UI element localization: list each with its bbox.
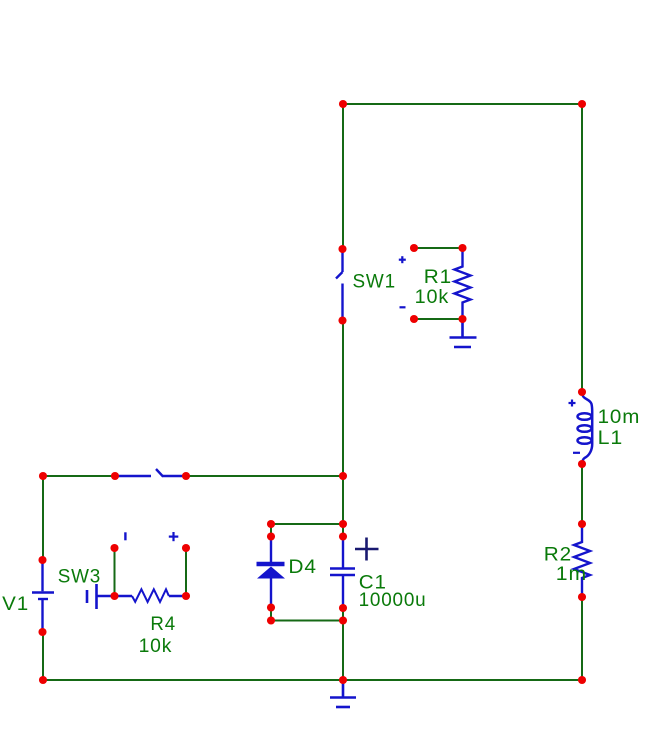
switch SW1 — [336, 251, 343, 318]
node D4 pin bottom — [267, 603, 275, 611]
svg-text:10k: 10k — [415, 287, 449, 308]
label R1 — [424, 267, 452, 288]
svg-text:1m: 1m — [556, 564, 587, 585]
node mid left corner — [39, 472, 47, 480]
svg-text:V1: V1 — [2, 594, 29, 615]
node R1 top — [458, 244, 466, 252]
svg-text:R2: R2 — [544, 545, 572, 566]
svg-text:10m: 10m — [598, 407, 641, 428]
wire right lower vertical — [581, 597, 583, 680]
wire mid junction down to C1 — [342, 476, 344, 538]
node R1 sense bottom — [410, 315, 418, 323]
switch SW2 horizontal — [115, 469, 186, 477]
wire right middle vertical — [581, 464, 583, 524]
wire left vertical above V1 — [42, 476, 44, 560]
wire right upper vertical — [581, 104, 583, 392]
svg-text:R4: R4 — [150, 614, 176, 635]
node SW1 bottom — [338, 316, 346, 324]
resistor R2 — [574, 524, 590, 597]
node C1 pin top — [339, 532, 347, 540]
node L1 bottom — [578, 460, 586, 468]
wire middle horizontal left — [43, 475, 115, 477]
label R2 value 1m — [556, 564, 587, 585]
label SW3 — [58, 567, 101, 588]
node R4 right — [182, 592, 190, 600]
wire top horizontal — [343, 103, 582, 105]
node D4 corner top — [267, 520, 275, 528]
wire D4 bottom horizontal — [271, 620, 343, 622]
node R1 bottom — [458, 315, 466, 323]
node ground junction — [339, 676, 347, 684]
label SW1 — [353, 272, 396, 293]
switch SW3 — [87, 584, 115, 609]
label R4 — [150, 614, 176, 635]
svg-text:SW3: SW3 — [58, 567, 101, 588]
label C1 — [359, 573, 387, 594]
node R2 bottom — [578, 593, 586, 601]
wire R1 top horizontal — [414, 247, 463, 249]
label R1 value 10k — [415, 287, 449, 308]
polarity + SW3 — [169, 532, 179, 541]
node top right — [578, 100, 586, 108]
node C1 corner top — [339, 520, 347, 528]
polarity + R1 — [399, 256, 406, 263]
inductor L1 — [578, 392, 593, 464]
polarity + C1 — [355, 538, 379, 561]
node SW3 sense right top — [182, 544, 190, 552]
svg-text:L1: L1 — [598, 428, 624, 449]
battery V1 — [32, 560, 54, 632]
wire SW1 top feed — [342, 104, 344, 249]
wire middle horizontal right — [186, 475, 343, 477]
svg-text:10000u: 10000u — [359, 590, 427, 611]
resistor R4 — [115, 589, 187, 602]
polarity - R1 — [400, 306, 406, 308]
label R2 — [544, 545, 572, 566]
label D4 — [288, 557, 317, 578]
wire SW1 bottom to mid junction — [342, 321, 344, 476]
node bottom right corner — [578, 676, 586, 684]
svg-text:10k: 10k — [139, 636, 173, 657]
node SW3 sense left top — [110, 544, 118, 552]
svg-text:SW1: SW1 — [353, 272, 396, 293]
polarity - L1 — [573, 452, 580, 454]
node R2 top — [578, 520, 586, 528]
node bottom left corner — [39, 676, 47, 684]
label C1 value 10000u — [359, 590, 427, 611]
capacitor C1 — [330, 538, 355, 607]
node top left — [339, 100, 347, 108]
node C1 corner bottom — [339, 616, 347, 624]
node SW2 left — [111, 472, 119, 480]
node V1 top — [38, 556, 46, 564]
node D4 pin top — [267, 532, 275, 540]
label L1 value 10m — [598, 407, 641, 428]
label V1 — [2, 594, 29, 615]
node D4 corner bottom — [267, 616, 275, 624]
node mid junction — [339, 472, 347, 480]
ground under R1 — [450, 319, 477, 347]
wire D4 top stub — [270, 524, 272, 538]
node R4 left — [110, 592, 118, 600]
label L1 — [598, 428, 624, 449]
polarity + L1 — [569, 400, 576, 407]
node C1 pin bottom — [339, 604, 347, 612]
node SW1 top — [338, 245, 346, 253]
svg-text:D4: D4 — [288, 557, 317, 578]
label R4 value 10k — [139, 636, 173, 657]
node R1 sense top — [410, 244, 418, 252]
wire R1 bottom horizontal — [414, 318, 463, 320]
wire left vertical below V1 — [42, 632, 44, 680]
diode D4 — [257, 538, 286, 607]
wire bottom horizontal — [43, 679, 582, 681]
wire D4 top horizontal — [271, 523, 343, 525]
wire C1 bottom to ground junction — [342, 607, 344, 680]
wire R4 right stub — [185, 548, 187, 596]
ground bottom — [330, 680, 356, 707]
node L1 top — [578, 388, 586, 396]
polarity - SW3 — [124, 532, 126, 540]
node V1 bottom — [38, 628, 46, 636]
svg-text:R1: R1 — [424, 267, 452, 288]
node SW2 right — [182, 472, 190, 480]
wire D4 bottom stub — [270, 606, 272, 621]
resistor R1 — [455, 248, 471, 319]
wire R4 left stub — [114, 548, 116, 596]
